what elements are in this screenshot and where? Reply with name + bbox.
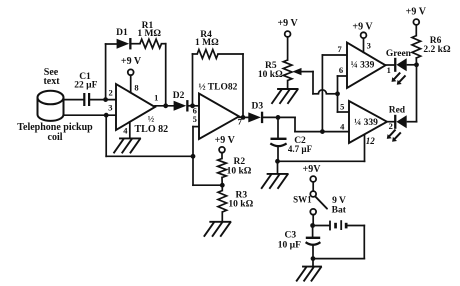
svg-text:10 kΩ: 10 kΩ	[258, 70, 283, 80]
terminal circle R6	[413, 19, 419, 25]
wire: R4 vertical from pin 6 node	[192, 54, 194, 106]
label: C1 22 uF	[74, 72, 97, 91]
svg-text:D2: D2	[173, 91, 185, 101]
svg-text:C3: C3	[284, 230, 296, 240]
label: R4 1 Mohm	[195, 30, 219, 48]
telephone pickup coil	[38, 91, 64, 121]
ground at op-amp U1a pin 4	[120, 137, 140, 139]
resistor R3	[218, 185, 227, 212]
wire: signal staircase to pin 4	[295, 117, 349, 131]
terminal circle supply	[310, 176, 316, 182]
svg-text:Red: Red	[389, 105, 406, 115]
svg-text:2: 2	[108, 87, 112, 97]
capacitor C1	[83, 93, 90, 106]
wire: +9V to R6	[415, 25, 417, 36]
terminal circle pin 3	[361, 32, 367, 38]
resistor R4	[197, 50, 218, 59]
potentiometer R5	[283, 60, 292, 81]
switch SW1	[310, 191, 327, 215]
node: pin 4 / pin 7 junction	[320, 129, 325, 134]
wire: comparator B output to red LED	[387, 121, 394, 123]
svg-text:4: 4	[123, 125, 128, 135]
label: Telephone pickup coil	[17, 122, 93, 143]
wire: node to ground symbol	[312, 259, 314, 267]
node: ground junction	[311, 256, 316, 261]
svg-text:D3: D3	[251, 101, 263, 111]
wire: D1 to R1	[132, 43, 140, 45]
ground below R5	[278, 88, 298, 90]
svg-text:coil: coil	[48, 132, 63, 143]
svg-text:2.2 kΩ: 2.2 kΩ	[423, 45, 451, 55]
svg-text:¼ 339: ¼ 339	[354, 118, 378, 128]
svg-text:6: 6	[339, 65, 343, 75]
R5 wiper arrow	[292, 68, 313, 75]
wire: pin 3 supply	[363, 38, 365, 52]
op-amp U1b 1/2 TLO82	[199, 94, 239, 140]
svg-text:4: 4	[340, 121, 345, 131]
label: C2 4.7 uF	[288, 136, 313, 154]
svg-text:TLO 82: TLO 82	[134, 124, 168, 135]
svg-text:½ TLO82: ½ TLO82	[198, 82, 237, 92]
svg-text:2: 2	[389, 121, 393, 131]
svg-text:¼ 339: ¼ 339	[351, 60, 375, 70]
label: See text	[43, 67, 60, 87]
svg-text:4.7 µF: 4.7 µF	[288, 144, 313, 154]
wire: node down to C3	[312, 226, 314, 238]
svg-text:+9 V: +9 V	[121, 56, 142, 67]
comparator U2b 1/4 339	[349, 101, 387, 143]
wire: node to battery	[313, 225, 330, 227]
node: D3 / C2 junction	[276, 115, 281, 120]
svg-text:1 MΩ: 1 MΩ	[137, 29, 161, 39]
svg-text:+9 V: +9 V	[406, 6, 427, 17]
wire: vertical to comparator pin 7	[321, 55, 323, 132]
svg-text:+9 V: +9 V	[352, 21, 373, 32]
svg-text:10 kΩ: 10 kΩ	[228, 199, 253, 209]
node: pin 3 junction	[104, 113, 109, 118]
svg-text:22 µF: 22 µF	[74, 81, 97, 91]
svg-text:1: 1	[154, 93, 158, 103]
svg-text:5: 5	[193, 114, 197, 124]
wire: down to C2	[277, 117, 279, 138]
svg-text:½: ½	[148, 113, 155, 123]
wire: bias long horizontal run	[106, 155, 193, 157]
wire: R5 to ground	[287, 81, 289, 89]
pin 8 supply wire	[130, 75, 132, 92]
svg-text:3: 3	[367, 40, 371, 50]
node: battery / C3 top junction	[310, 223, 315, 228]
label: R1 1 Mohm	[137, 21, 161, 39]
terminal circle pin 8	[128, 69, 134, 75]
node: R2/R3 junction	[220, 183, 225, 188]
LED red	[394, 115, 396, 129]
node: feedback to output	[163, 103, 168, 108]
wire: R2 to junction	[221, 178, 223, 186]
svg-text:+9V: +9V	[303, 164, 322, 175]
wire: battery to ground loop	[313, 226, 364, 259]
svg-text:3: 3	[108, 103, 112, 113]
svg-text:D1: D1	[116, 28, 128, 38]
terminal circle R5	[285, 31, 291, 37]
svg-text:Bat: Bat	[332, 205, 347, 215]
wire: +9V to R2	[221, 153, 223, 159]
wire: feedback vertical from pin 2 node	[105, 44, 107, 100]
wire: R4 to op-amp U1b output	[218, 54, 243, 117]
wire: D2 to op-amp U1b pin 6	[189, 105, 200, 107]
green LED emission arrows	[392, 73, 406, 85]
wire: +9V to switch	[312, 182, 314, 191]
wire: wiper run with hop over signal line	[313, 72, 338, 94]
wire: pin 7 horizontal	[322, 54, 347, 56]
wire: switch to battery node	[312, 215, 314, 226]
ground below R3	[210, 221, 230, 223]
wire: feedback top run to D1	[106, 43, 117, 45]
diode D1	[117, 39, 130, 49]
resistor R2	[218, 159, 227, 178]
node: pin 2 junction	[103, 97, 108, 102]
wire: R3 to ground	[221, 212, 223, 222]
svg-text:Green: Green	[386, 49, 412, 59]
wire: green LED to R6 node	[408, 64, 417, 66]
svg-text:+9 V: +9 V	[215, 135, 236, 146]
wire: op-amp U1b output to D3	[239, 116, 248, 118]
wire: pin 4 to ground	[129, 122, 131, 138]
comparator U2a 1/4 339	[347, 43, 386, 89]
wire: R4 left stub	[193, 53, 198, 55]
red LED emission arrows	[387, 130, 401, 142]
wire: rail to ground symbol	[277, 161, 279, 173]
diode D2	[174, 101, 187, 111]
diode D3	[248, 112, 261, 122]
wire: bias to R2/R3 junction	[193, 184, 222, 186]
+9V terminal at pin 8	[121, 56, 142, 67]
svg-text:10 kΩ: 10 kΩ	[227, 166, 252, 176]
wire: coil top to C1	[63, 99, 83, 101]
svg-text:SW1: SW1	[293, 194, 312, 204]
wire: C2 to ground rail	[277, 147, 279, 162]
capacitor C3	[306, 238, 321, 245]
wire: op-amp U1a output	[155, 105, 174, 107]
node: green LED / R6 junction	[414, 62, 419, 67]
wire: LED rail down to red LED	[408, 65, 417, 122]
op-amp U1a 1/2 TLO82	[116, 84, 155, 130]
svg-text:1 MΩ: 1 MΩ	[195, 38, 219, 48]
svg-text:text: text	[43, 76, 60, 87]
node: reference junction	[335, 91, 340, 96]
label: R3 10 kohm	[228, 190, 253, 209]
wire: bias vertical from pin 3 node	[105, 115, 107, 156]
svg-text:+9 V: +9 V	[277, 18, 298, 29]
wire: coil bottom to op-amp pin 3	[63, 114, 116, 116]
ground rail from C2 to pin 12	[278, 160, 365, 162]
capacitor C2	[270, 139, 286, 146]
wire: R1 to output node	[162, 44, 166, 106]
wire: comparator pin 12	[364, 134, 366, 161]
label: 1/2 TLO 82	[134, 113, 168, 135]
wire: D3 to signal node	[264, 116, 295, 118]
node: D2 / R4 junction	[190, 103, 195, 108]
wire: comparator A output to green LED	[386, 64, 395, 66]
svg-text:8: 8	[134, 83, 138, 93]
wire: R6 to LED junction	[415, 58, 417, 65]
resistor R1	[140, 39, 162, 48]
node: C2 ground junction	[275, 159, 280, 164]
node: R4 to output junction	[241, 115, 246, 120]
label: R5 10 kohm	[258, 61, 283, 80]
ground at battery	[303, 266, 321, 268]
label: R2 10 kohm	[227, 157, 252, 176]
svg-text:10 µF: 10 µF	[278, 240, 301, 250]
svg-text:5: 5	[340, 101, 344, 111]
wire: pin 5 stub	[193, 126, 199, 128]
label: R6 2.2 kohm	[423, 36, 451, 55]
svg-text:7: 7	[337, 44, 342, 54]
label: C3 10 uF	[278, 230, 301, 250]
svg-text:9 V: 9 V	[332, 196, 346, 206]
terminal circle R2	[219, 147, 225, 153]
wire: pin 5 vertical	[192, 127, 194, 186]
svg-text:1: 1	[387, 65, 391, 75]
node: bias tee to pin 5	[191, 154, 196, 159]
wire: +9V to R5	[287, 37, 289, 60]
wire: C1 to op-amp pin 2	[90, 99, 116, 101]
resistor R6	[412, 36, 421, 58]
ground at C2	[268, 173, 288, 175]
wire: reference vertical pins 6 and 5	[338, 76, 350, 112]
LED green	[394, 58, 396, 72]
battery B1 9V	[330, 220, 348, 230]
wire: C3 to bottom node	[312, 245, 314, 258]
svg-text:12: 12	[366, 136, 376, 146]
label: 9 V Bat	[332, 196, 347, 216]
